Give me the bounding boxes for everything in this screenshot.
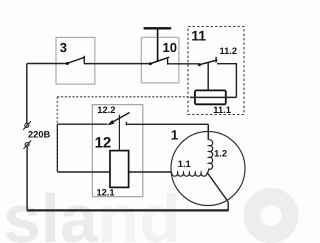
wire: bottom bus xyxy=(27,209,228,211)
pedal bar of switch 10 xyxy=(144,27,172,29)
wire: switch 11.2 output to right corner xyxy=(217,63,237,65)
terminal lower 220V xyxy=(24,141,32,149)
wire: motor working winding feed xyxy=(57,171,171,173)
wire: heater feed horizontal xyxy=(190,96,236,98)
svg-text:1: 1 xyxy=(171,128,179,143)
box 12 (relay) xyxy=(92,105,143,197)
switch 12.2 (relay contact with arrow) xyxy=(107,113,130,126)
enclosure dashed box top edge xyxy=(57,96,191,98)
switch 3 xyxy=(66,56,85,65)
wire through heater xyxy=(194,96,227,98)
svg-text:3: 3 xyxy=(60,40,67,55)
svg-text:11.2: 11.2 xyxy=(220,46,238,56)
wire: right vertical down to heater level xyxy=(235,64,237,98)
box 10 xyxy=(141,37,179,83)
wire: motor center diagonal lead xyxy=(208,173,229,202)
enclosure dashed box left edge xyxy=(56,97,58,172)
wire: left bus upper xyxy=(26,64,28,124)
svg-text:1.1: 1.1 xyxy=(178,159,191,169)
svg-text:11: 11 xyxy=(191,27,206,43)
motor M1 circle xyxy=(171,132,245,206)
svg-text:220В: 220В xyxy=(28,129,51,139)
heater 11.1 xyxy=(195,90,226,104)
switch 10 xyxy=(149,57,169,65)
svg-text:11.1: 11.1 xyxy=(213,105,231,115)
wire: switch 12.2 output to motor start winding xyxy=(126,123,208,125)
pedal stem xyxy=(157,29,159,62)
box 11 (thermal relay, dashed) xyxy=(188,27,244,115)
box 3 xyxy=(56,37,95,84)
mechanical link 12 xyxy=(118,115,120,151)
watermark xyxy=(3,181,290,243)
wire: branch vertical inside enclosure xyxy=(56,124,58,172)
winding 1.1 xyxy=(172,172,207,176)
wire: bus to switch 12.2 xyxy=(57,123,107,125)
winding 1.2 xyxy=(208,140,213,174)
wire: top bus segment switch 3 to switch 10 xyxy=(84,63,150,65)
terminal upper 220V xyxy=(23,121,31,129)
wire: riser from bottom bus to motor diagonal xyxy=(227,202,229,211)
wire: top bus segment switch 10 to switch 11.2 xyxy=(168,63,200,65)
relay coil 12.1 xyxy=(110,151,129,188)
wire: start winding drop xyxy=(207,124,209,140)
mechanical link 11 xyxy=(207,62,209,90)
svg-text:12: 12 xyxy=(95,134,112,151)
switch 11.2 xyxy=(198,57,218,66)
svg-text:10: 10 xyxy=(163,40,177,55)
wire: top bus segment from left corner to switch 3 xyxy=(27,63,67,65)
wire: left bus lower xyxy=(26,147,28,211)
svg-text:12.2: 12.2 xyxy=(97,105,115,115)
svg-text:12.1: 12.1 xyxy=(97,187,115,197)
svg-text:1.2: 1.2 xyxy=(214,149,227,159)
